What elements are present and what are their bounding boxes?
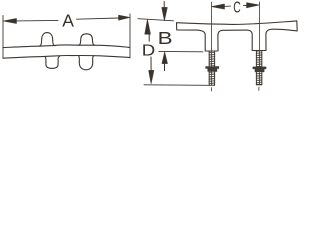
- svg-text:B: B: [158, 29, 173, 48]
- svg-text:C: C: [233, 0, 241, 16]
- svg-text:D: D: [142, 41, 155, 59]
- svg-text:A: A: [62, 11, 74, 31]
